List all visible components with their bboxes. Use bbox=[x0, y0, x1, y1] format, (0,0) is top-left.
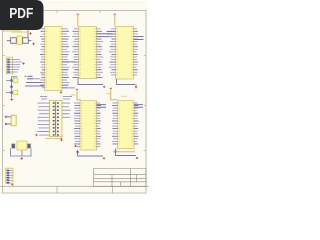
U5 left pins bbox=[112, 103, 118, 144]
ground flag below U5 bbox=[136, 157, 138, 159]
U4 left pins bbox=[74, 103, 80, 147]
node below U5 bbox=[115, 151, 117, 153]
J2 label bbox=[45, 138, 61, 140]
net label near U5 power bbox=[107, 94, 128, 97]
connector J1 bbox=[6, 57, 12, 74]
U2 right net wires bbox=[97, 34, 113, 37]
net label above crystal bbox=[12, 31, 27, 33]
IC U2 bbox=[79, 27, 97, 79]
svg-text:PDF: PDF bbox=[9, 5, 33, 22]
VCC power flag above U2 bbox=[77, 13, 79, 15]
wire below U3 bbox=[117, 79, 136, 85]
J4 pads bbox=[5, 116, 7, 125]
ground flag below L1 bbox=[21, 157, 23, 159]
U1 right pins bbox=[62, 29, 70, 88]
crystal Y1 bbox=[17, 36, 22, 44]
power wire to U3 bbox=[114, 15, 116, 26]
U2 left pins bbox=[72, 29, 79, 78]
power wire to U4 bbox=[77, 90, 81, 100]
wire below L1 bbox=[11, 149, 32, 157]
title block bbox=[94, 169, 147, 187]
wire below U5 bbox=[116, 149, 137, 156]
U4 right net wires bbox=[97, 105, 107, 108]
wire stubs C3 C4 bbox=[6, 81, 10, 93]
PDF badge bbox=[0, 0, 44, 30]
wire from U6 to crystal bbox=[20, 28, 28, 37]
IC U3 bbox=[116, 27, 134, 80]
node below U4 bbox=[77, 151, 79, 153]
ground flag below C4 bbox=[11, 98, 13, 100]
net wire below U5 bbox=[113, 151, 135, 153]
power flag left of U4 bbox=[75, 145, 77, 147]
capacitor C3 bbox=[10, 78, 17, 82]
connector J4 bbox=[11, 115, 16, 125]
U5 right pins bbox=[134, 103, 139, 144]
capacitor C4 bbox=[10, 90, 17, 94]
capacitor C2 bbox=[23, 38, 29, 44]
U1 right long wire bbox=[62, 61, 75, 63]
U5 pin numbers bbox=[118, 103, 133, 144]
U1 left pins bbox=[40, 29, 45, 88]
wire crystal horizontal bbox=[7, 40, 32, 42]
capacitor C1 bbox=[11, 38, 17, 44]
junction node between C3 C4 bbox=[10, 86, 12, 88]
U3 pin numbers bbox=[116, 29, 133, 75]
IC U5 bbox=[118, 101, 135, 149]
junction right of J1 bbox=[22, 62, 24, 64]
U3 left net wires bbox=[107, 32, 116, 35]
U3 right pins bbox=[134, 29, 139, 75]
IC U1 bbox=[45, 27, 63, 91]
VCC power flag above U3 bbox=[114, 13, 116, 15]
connector J3 bbox=[6, 168, 13, 183]
U3 left pins bbox=[109, 29, 116, 75]
power wire to U2 bbox=[77, 15, 79, 26]
power flag above U4 bbox=[76, 88, 78, 90]
U5 right net wires bbox=[134, 105, 143, 108]
power wire to U5 bbox=[111, 89, 118, 100]
J1 pin wires bbox=[10, 60, 22, 73]
U3 right net wires bbox=[134, 37, 144, 40]
U4 right pins bbox=[97, 103, 102, 147]
J4 pin stubs bbox=[7, 117, 12, 124]
U1 pin numbers bbox=[45, 29, 61, 88]
IC U4 bbox=[80, 101, 97, 150]
U4 pin numbers bbox=[81, 103, 96, 147]
ground below J3 bbox=[11, 184, 13, 186]
wire right of U1 bottom bbox=[62, 87, 75, 89]
net labels above J2 bbox=[40, 97, 72, 100]
U2 right pins bbox=[97, 29, 104, 78]
net labels cluster A bbox=[25, 74, 48, 87]
power flag above U5 bbox=[110, 87, 112, 89]
power flag node top of crystal wire bbox=[29, 32, 31, 34]
junction below U2 bbox=[103, 86, 105, 88]
U2 pin numbers bbox=[79, 29, 96, 78]
wire below U4 bbox=[78, 150, 104, 156]
ground flag below U4 bbox=[103, 157, 105, 159]
net label near U4 power bbox=[71, 94, 76, 96]
connector J2 bbox=[50, 101, 63, 137]
ground arrow below U3 bbox=[135, 85, 138, 89]
wire below U2 bbox=[78, 79, 103, 85]
J3 pin stubs bbox=[10, 170, 13, 180]
J2 left wires bbox=[38, 103, 50, 135]
J2 right wires bbox=[62, 103, 71, 117]
junction left of J2 bbox=[35, 134, 37, 136]
component U6 top-left (under badge) bbox=[3, 26, 20, 32]
power flag right of crystal bbox=[32, 43, 34, 45]
junction below U1 bbox=[60, 91, 62, 93]
wire vertical through C3/C4 bbox=[12, 77, 18, 98]
ground arrow below J2 bbox=[60, 138, 63, 142]
inductor L1 bbox=[12, 141, 31, 150]
